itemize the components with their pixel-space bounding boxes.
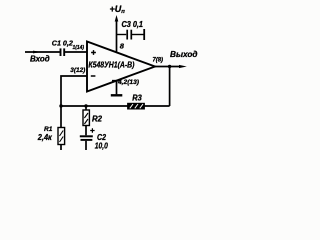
svg-text:Выход: Выход <box>170 49 198 59</box>
svg-text:2,4к: 2,4к <box>37 133 53 142</box>
svg-text:R1: R1 <box>44 126 53 133</box>
svg-text:Вход: Вход <box>30 54 50 63</box>
svg-text:1(14): 1(14) <box>73 45 85 51</box>
svg-text:С1 0,2: С1 0,2 <box>52 39 73 48</box>
svg-text:8: 8 <box>120 42 125 51</box>
svg-text:К548УН1(А-В): К548УН1(А-В) <box>88 59 134 69</box>
svg-text:R3: R3 <box>132 93 142 103</box>
svg-text:10,0: 10,0 <box>95 140 108 150</box>
svg-text:+Uп: +Uп <box>110 4 126 15</box>
svg-text:4,2(13): 4,2(13) <box>117 79 139 86</box>
svg-text:7(8): 7(8) <box>153 57 164 64</box>
svg-text:3(12): 3(12) <box>70 67 85 74</box>
svg-text:R2: R2 <box>92 114 103 123</box>
svg-text:С3 0,1: С3 0,1 <box>122 20 144 29</box>
